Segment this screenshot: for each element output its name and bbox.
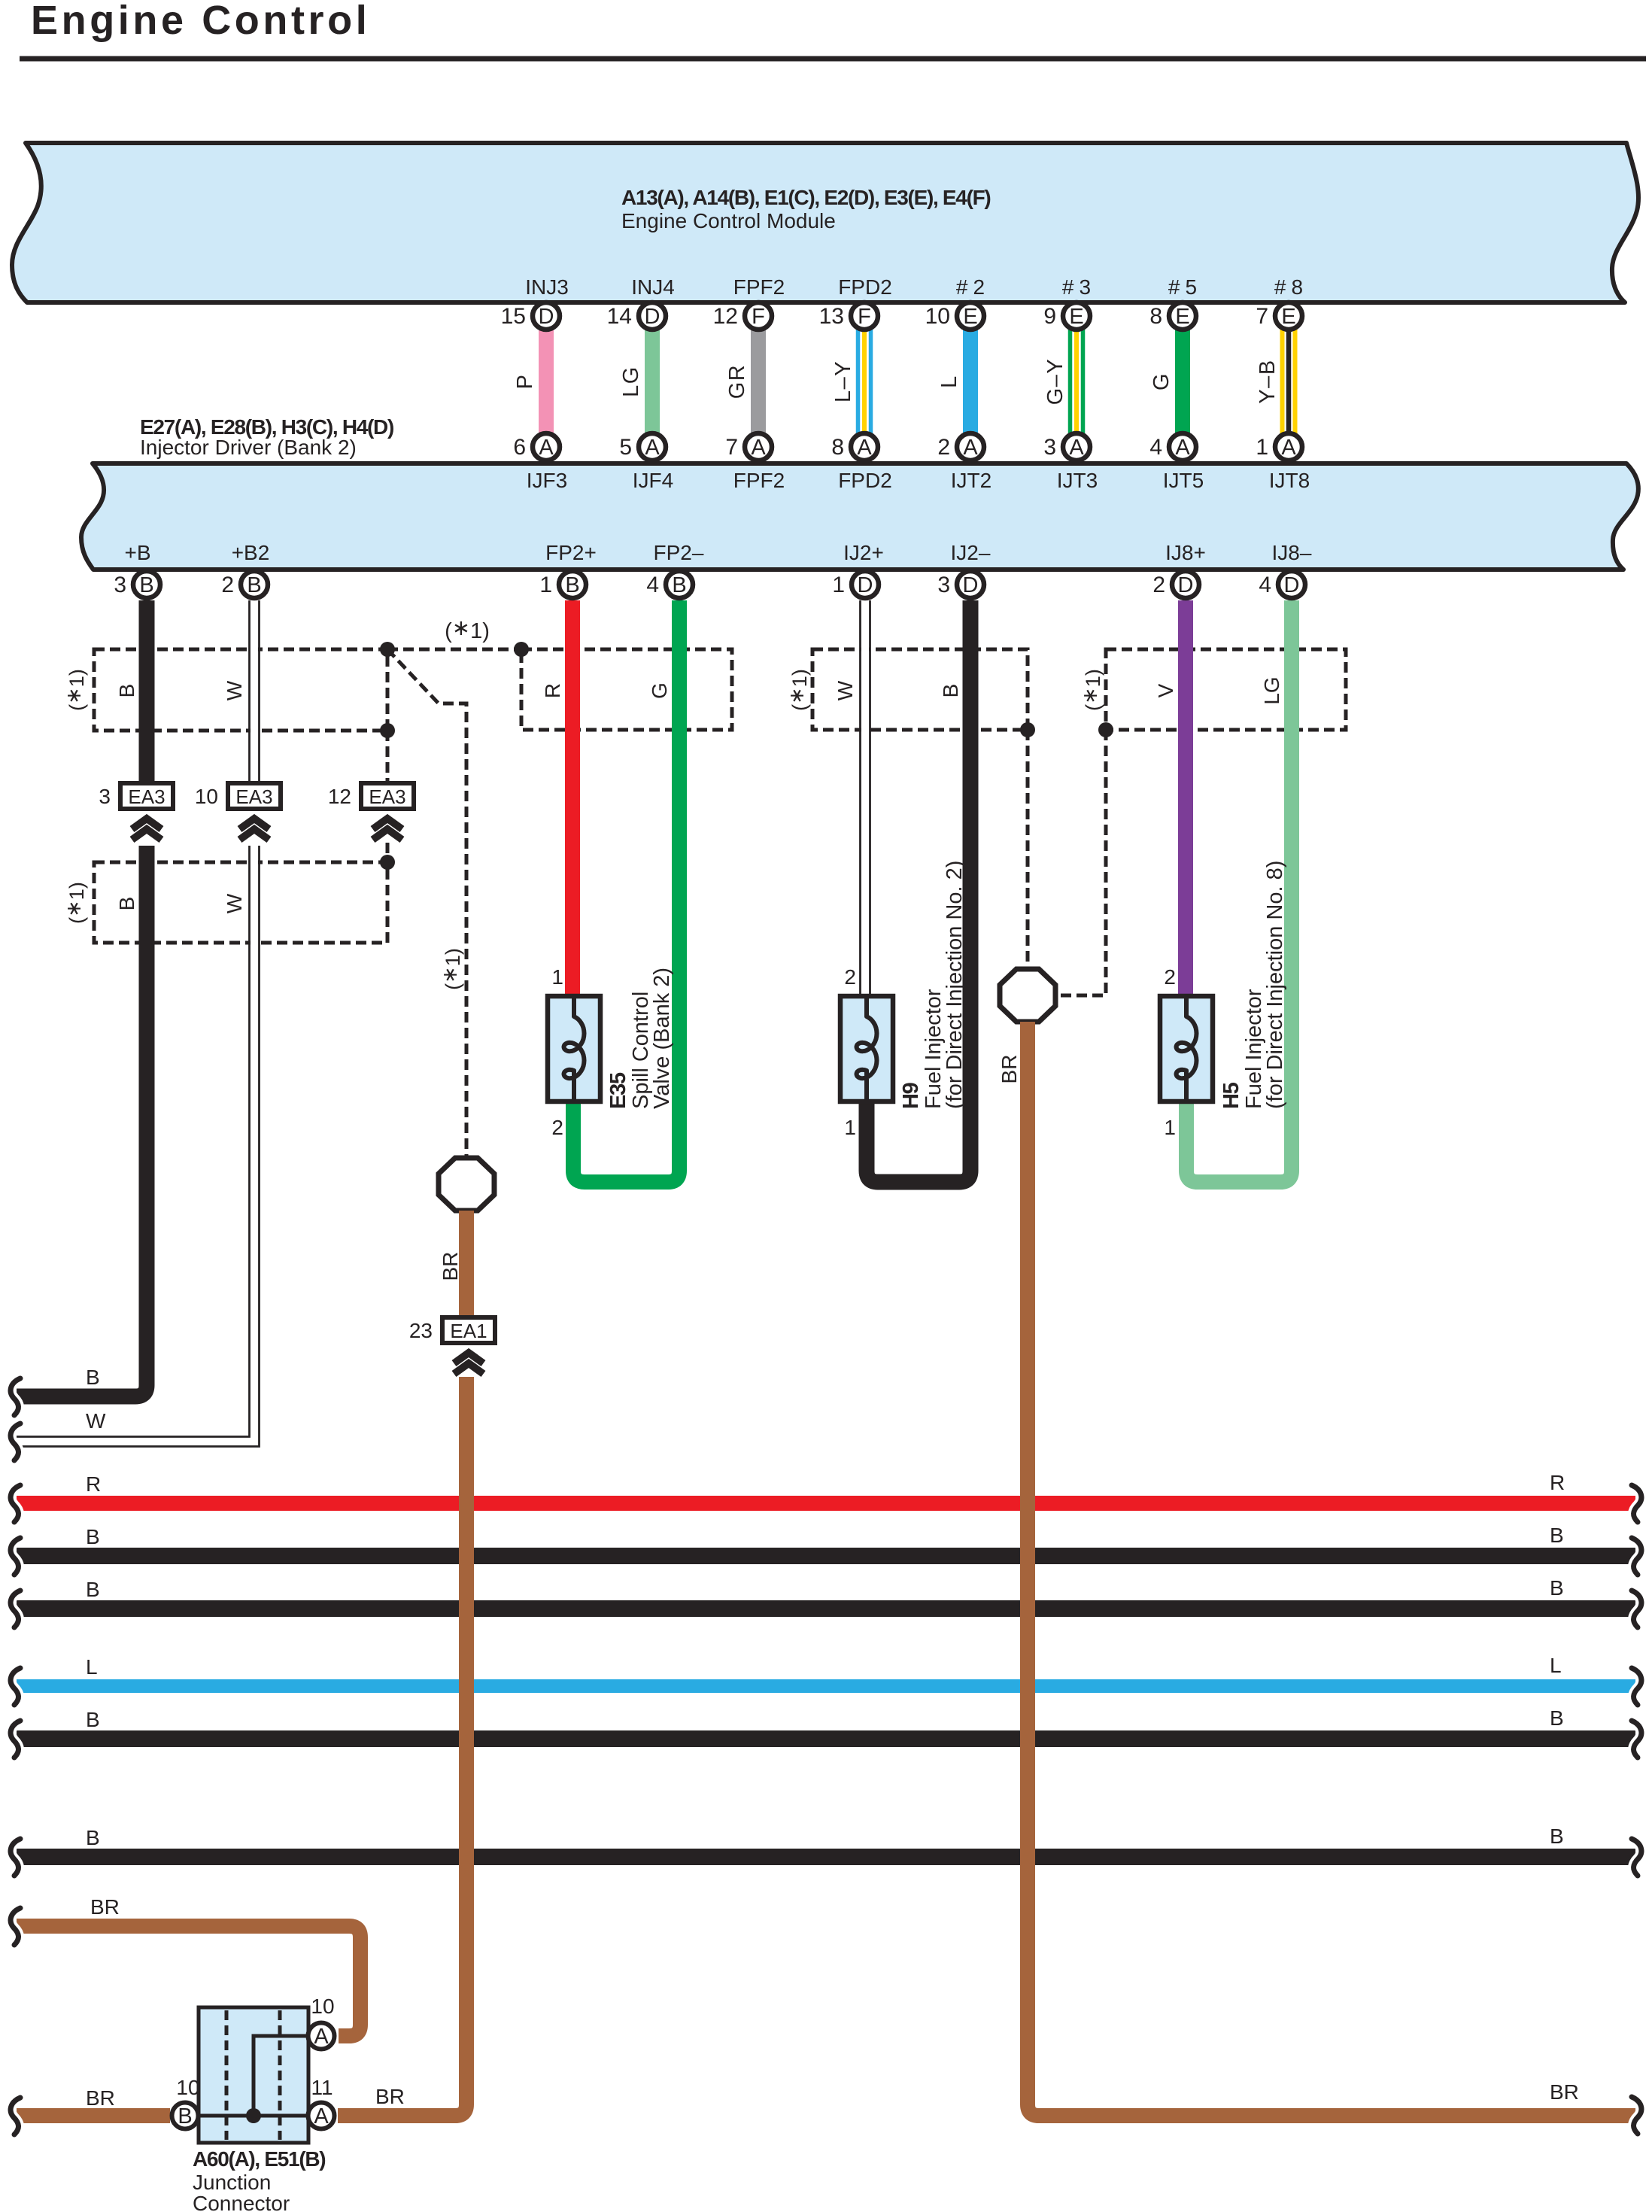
svg-text:7: 7 [725,435,738,460]
svg-text:+B2: +B2 [232,541,270,564]
ECM pin 14(D) INJ4 [607,302,666,330]
svg-text:15: 15 [501,304,526,329]
svg-text:IJ2+: IJ2+ [843,541,884,564]
connector 12 EA3 [328,783,414,840]
ECM pin labels inside band [525,275,1303,299]
svg-text:A: A [1069,436,1084,460]
wire G FP2- down, U to E35 pin2 [573,600,679,1182]
connector 10 EA3 [195,783,281,840]
svg-text:R: R [1550,1471,1565,1494]
svg-text:B: B [1550,1825,1564,1848]
svg-text:B: B [86,1525,100,1548]
page break R left [11,1485,20,1522]
driver top pin 6(A) IJF3 [513,433,560,460]
svg-text:(∗1): (∗1) [439,948,464,990]
svg-text:IJF3: IJF3 [527,469,567,492]
svg-text:W: W [834,680,857,700]
svg-text:3: 3 [99,785,111,808]
ECM pin 10(E) #2 [925,302,984,330]
bus L [17,1654,1635,1686]
dashed link box1 to box2 [387,648,521,652]
fuel injector H5 [1160,861,1287,1139]
svg-text:A: A [314,2104,329,2128]
svg-text:H9: H9 [899,1082,923,1109]
wire B from +B pin3 down and left to page edge [17,600,147,1396]
driver bottom pin 2(B) +B2 [221,571,268,598]
driver bottom pin labels inside band [124,541,1311,564]
svg-text:B: B [939,684,962,698]
wire B IJ2- down, U to H9 pin1 [867,600,970,1182]
svg-text:1: 1 [551,965,563,989]
svg-text:EA3: EA3 [128,785,165,808]
svg-text:(for Direct Injection No. 2): (for Direct Injection No. 2) [943,861,967,1109]
svg-text:4: 4 [1259,573,1271,597]
wire LG IJ8- down, U to H5 pin1 [1186,600,1292,1182]
wire P INJ3-IJF3 [513,330,546,433]
svg-text:F: F [858,305,871,329]
wire V IJ8+ down to H5 pin2 [1178,600,1193,996]
svg-text:2: 2 [551,1116,563,1139]
wire Y-B #8-IJT8 [1256,330,1295,433]
fuel injector H9 [840,861,967,1139]
svg-text:(∗1): (∗1) [1079,669,1104,711]
svg-text:1: 1 [832,573,845,597]
svg-text:10: 10 [176,2076,199,2099]
ECM pin 9(E) #3 [1043,302,1090,330]
connector 23 EA1 [409,1317,495,1374]
svg-text:1: 1 [539,573,552,597]
svg-text:(∗1): (∗1) [62,882,88,924]
svg-text:12: 12 [328,785,351,808]
driver bottom pin 1(D) IJ2+ [832,571,879,598]
dashed wire box4 to right noise filter side [1055,730,1106,995]
svg-text:E: E [1175,305,1189,329]
page break W left [11,1424,20,1460]
svg-text:BR: BR [90,1895,120,1919]
svg-text:B: B [86,1366,100,1389]
driver top pin 3(A) IJT3 [1043,433,1090,460]
svg-text:Junction: Junction [193,2171,271,2194]
junction connector label [193,2147,325,2212]
Injector Driver header text [140,415,393,459]
svg-text:A: A [645,436,660,460]
driver top pin labels inside band [527,469,1310,492]
page break B1 left [11,1538,20,1575]
bus B1 [17,1524,1635,1556]
driver top pin 2(A) IJT2 [937,433,984,460]
page break B2 left [11,1591,20,1627]
svg-text:8: 8 [1149,304,1162,329]
svg-text:FPF2: FPF2 [733,275,785,299]
svg-text:IJF4: IJF4 [633,469,673,492]
wire LG INJ4-IJF4 [619,330,652,433]
svg-text:# 8: # 8 [1274,275,1303,299]
svg-text:FP2–: FP2– [654,541,704,564]
svg-text:(∗1): (∗1) [785,669,811,711]
svg-text:L: L [937,375,961,388]
wire G #5-IJT5 [1149,330,1183,433]
driver bottom pin 4(D) IJ8- [1259,571,1305,598]
driver top pin 1(A) IJT8 [1256,433,1302,460]
wire BR below left octagon to EA1 [439,1211,466,1317]
junction pin 10(B) [172,2076,200,2129]
page break BR lower left [11,2098,20,2135]
svg-text:5: 5 [619,435,632,460]
svg-text:E: E [1069,305,1083,329]
svg-text:W: W [223,893,246,913]
svg-text:BR: BR [439,1252,462,1281]
svg-text:3: 3 [937,573,950,597]
svg-text:Engine Control Module: Engine Control Module [621,209,836,232]
page break L left [11,1668,20,1705]
svg-text:Y–B: Y–B [1256,359,1280,403]
page break L right [1632,1668,1641,1705]
svg-text:A: A [857,436,872,460]
junction dot box1 bottom right [380,723,395,738]
driver bottom pin 3(B) +B [114,571,160,598]
svg-text:IJT3: IJT3 [1057,469,1098,492]
svg-text:B: B [86,1708,100,1731]
svg-text:R: R [86,1472,101,1496]
svg-text:A: A [539,436,554,460]
junction dot box5 top right [380,855,395,870]
svg-text:(∗1): (∗1) [445,616,490,643]
svg-text:6: 6 [513,435,526,460]
svg-text:# 2: # 2 [956,275,985,299]
svg-text:B: B [1550,1576,1564,1600]
svg-text:W: W [223,680,246,700]
bus B4 [17,1825,1635,1857]
svg-text:F: F [752,305,765,329]
svg-text:EA1: EA1 [450,1320,487,1342]
junction pin 11(A) [308,2076,335,2129]
page break R right [1632,1485,1641,1522]
page break B3 left [11,1721,20,1758]
ECM module band A13/A14/E1-E4 [12,143,1638,302]
svg-text:Valve (Bank 2): Valve (Bank 2) [650,968,674,1109]
svg-text:B: B [139,573,153,597]
svg-text:D: D [539,305,554,329]
svg-text:EA3: EA3 [235,785,272,808]
svg-text:10: 10 [311,1995,334,2018]
svg-text:B: B [247,573,261,597]
svg-text:1: 1 [1256,435,1268,460]
svg-text:IJT8: IJT8 [1269,469,1310,492]
wire BR below right octagon down to bottom bus [1028,1022,1635,2116]
svg-text:B: B [115,897,138,911]
svg-text:INJ3: INJ3 [525,275,569,299]
bus R [17,1471,1635,1503]
svg-text:D: D [1284,573,1300,597]
svg-text:2: 2 [937,435,950,460]
svg-text:IJ8–: IJ8– [1272,541,1312,564]
svg-text:L: L [1550,1654,1562,1677]
dashed shield box 2 (*1) R/G [521,649,732,730]
svg-text:EA3: EA3 [369,785,405,808]
svg-text:B: B [115,684,138,698]
title Engine Control [31,0,370,43]
svg-text:(for Direct Injection No. 8): (for Direct Injection No. 8) [1263,861,1287,1109]
dashed shield box 4 (*1) V/LG [1106,649,1346,730]
ECM pin 15(D) INJ3 [501,302,560,330]
svg-text:P: P [513,374,537,390]
driver bottom pin 1(B) FP2+ [539,571,586,598]
svg-text:BR: BR [86,2086,115,2110]
driver top pin 4(A) IJT5 [1149,433,1196,460]
svg-text:13: 13 [819,304,844,329]
connector 3 EA3 [99,783,173,840]
svg-text:W: W [86,1409,106,1433]
wire L #2-IJT2 [937,330,970,433]
wire BR from EA1 down to junction connector A(11) [338,1377,466,2116]
svg-text:(∗1): (∗1) [62,669,88,711]
svg-text:2: 2 [221,573,234,597]
noise filter octagon right [1000,969,1055,1022]
svg-text:1: 1 [1164,1116,1176,1139]
svg-text:B: B [86,1578,100,1601]
svg-text:A: A [751,436,766,460]
svg-text:4: 4 [1149,435,1162,460]
wire BR upper left to junction connector A(10) [17,1895,360,2036]
svg-text:B: B [565,573,579,597]
bus B3 [17,1706,1635,1739]
svg-text:LG: LG [619,366,643,397]
svg-text:+B: +B [124,541,150,564]
svg-text:23: 23 [409,1319,433,1342]
svg-text:IJ2–: IJ2– [951,541,991,564]
junction dot box4 bottom left [1098,722,1113,737]
wire G-Y #3-IJT3 [1043,330,1083,433]
svg-text:Engine Control: Engine Control [31,0,370,43]
svg-text:G: G [648,682,671,699]
Injector Driver band E27/E28/H3/H4 [81,463,1638,570]
page break BR bottom right [1632,2097,1641,2134]
svg-text:R: R [541,683,564,698]
svg-text:FPD2: FPD2 [838,275,892,299]
svg-text:V: V [1154,683,1177,697]
svg-text:L–Y: L–Y [831,360,855,403]
svg-text:IJT2: IJT2 [951,469,992,492]
svg-text:A13(A), A14(B), E1(C), E2(D),: A13(A), A14(B), E1(C), E2(D), E3(E), E4(… [621,186,990,209]
junction connector A60(A), E51(B) [199,2007,308,2143]
svg-text:LG: LG [1260,676,1283,704]
dashed shield box 5 (*1) B/W lower [94,862,387,943]
svg-text:E: E [963,305,977,329]
svg-text:FPD2: FPD2 [838,469,892,492]
wire L-Y FPD2-FPD2 [831,330,871,433]
svg-text:A: A [314,2025,329,2049]
ECM header text [621,186,990,232]
svg-text:BR: BR [375,2085,405,2108]
svg-text:B: B [672,573,686,597]
svg-text:B: B [86,1826,100,1849]
svg-text:H5: H5 [1219,1082,1244,1109]
bus B2 [17,1576,1635,1609]
svg-text:B: B [1550,1524,1564,1547]
page break B left [11,1378,20,1415]
svg-text:B: B [1550,1706,1564,1730]
wire W IJ2+ down to H9 pin2 (double line) [861,600,870,996]
ECM pin 8(E) #5 [1149,302,1196,330]
svg-text:BR: BR [998,1055,1021,1084]
ECM pin 7(E) #8 [1256,302,1302,330]
ECM pin 13(F) FPD2 [819,302,878,330]
svg-text:11: 11 [311,2076,333,2099]
svg-text:2: 2 [844,965,856,989]
junction dot box1 top right [380,642,395,657]
dashed shield box 1 (*1) B/W [94,649,387,731]
svg-text:D: D [858,573,873,597]
svg-text:A: A [1175,436,1190,460]
svg-text:L: L [86,1655,98,1679]
svg-text:9: 9 [1043,304,1056,329]
wire GR FPF2-FPF2 [725,330,758,433]
svg-text:G–Y: G–Y [1043,358,1067,406]
dashed diagonal from junction to noise filter drop [387,649,466,1158]
svg-text:B: B [178,2104,192,2128]
svg-text:D: D [645,305,660,329]
dashed wire EA3-12 down to shield box 5 [386,843,390,862]
svg-text:# 5: # 5 [1168,275,1197,299]
ECM pin 12(F) FPF2 [713,302,772,330]
junction dot box3 bottom right [1020,722,1035,737]
page break B3 right [1632,1721,1641,1758]
dashed wire box3 to right noise filter top [1026,730,1030,969]
wire R FP2+ down to E35 pin1 [565,600,580,996]
page break BR upper left [11,1908,20,1945]
svg-text:E35: E35 [606,1072,630,1109]
svg-text:IJT5: IJT5 [1163,469,1204,492]
driver top pin 7(A) FPF2 [725,433,772,460]
page break B2 right [1632,1591,1641,1627]
svg-text:A: A [1281,436,1296,460]
wire BR lower left to junction connector B(10) [17,2086,170,2116]
svg-text:4: 4 [646,573,659,597]
svg-text:GR: GR [725,364,749,400]
svg-text:7: 7 [1256,304,1268,329]
driver top pin 8(A) FPD2 [831,433,878,460]
svg-text:FPF2: FPF2 [733,469,785,492]
svg-text:A60(A), E51(B): A60(A), E51(B) [193,2147,325,2171]
svg-text:A: A [963,436,978,460]
driver bottom pin 2(D) IJ8+ [1152,571,1199,598]
driver top pin 5(A) IJF4 [619,433,666,460]
svg-text:IJ8+: IJ8+ [1165,541,1206,564]
svg-text:8: 8 [831,435,844,460]
svg-text:14: 14 [607,304,632,329]
svg-text:3: 3 [1043,435,1056,460]
svg-text:G: G [1149,372,1174,390]
svg-text:D: D [1178,573,1194,597]
svg-text:2: 2 [1164,965,1176,989]
page break B4 left [11,1839,20,1876]
svg-text:10: 10 [925,304,950,329]
svg-text:# 3: # 3 [1062,275,1091,299]
svg-text:FP2+: FP2+ [545,541,597,564]
svg-text:1: 1 [844,1116,856,1139]
title underline [20,56,1646,62]
svg-text:12: 12 [713,304,738,329]
spill control valve E35 [548,965,674,1139]
driver bottom pin 3(D) IJ2- [937,571,984,598]
svg-text:3: 3 [114,573,126,597]
svg-text:10: 10 [195,785,218,808]
svg-text:BR: BR [1550,2080,1579,2104]
dashed wire box1 right edge down to EA3-12 [386,731,390,782]
svg-text:2: 2 [1152,573,1165,597]
svg-text:D: D [963,573,979,597]
svg-text:INJ4: INJ4 [631,275,675,299]
svg-text:Connector: Connector [193,2192,290,2212]
noise filter octagon left [439,1158,494,1211]
dashed shield box 3 (*1) W/B [812,649,1028,730]
junction dot box1-box2 link [514,642,529,657]
wire W from +B2 pin2 down and left to page edge (double line) [17,600,260,1447]
page break B4 right [1632,1839,1641,1876]
page break B1 right [1632,1538,1641,1575]
svg-text:E: E [1281,305,1295,329]
junction pin 10(A) [308,1995,335,2049]
svg-text:Injector Driver (Bank 2): Injector Driver (Bank 2) [140,436,357,459]
driver bottom pin 4(B) FP2- [646,571,693,598]
